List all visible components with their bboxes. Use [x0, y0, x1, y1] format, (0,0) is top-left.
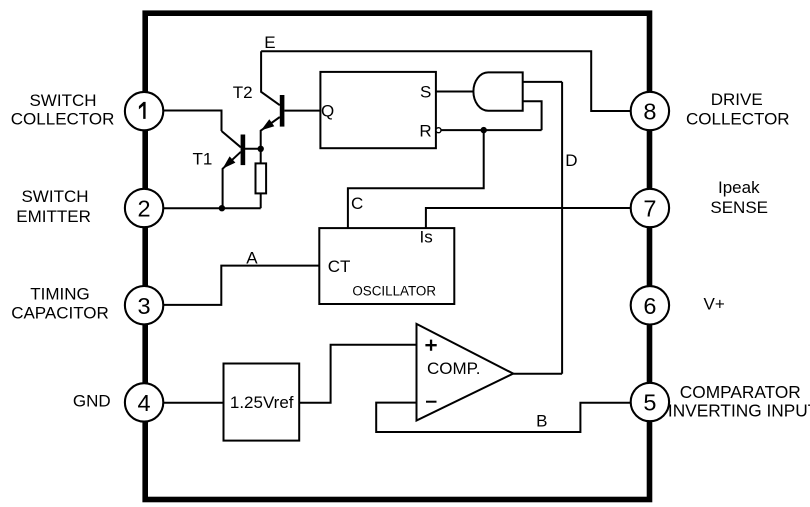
svg-text:GND: GND [73, 392, 111, 411]
comparator U2 [417, 324, 514, 421]
voltage reference block 1.25Vref [224, 364, 300, 441]
pin 3 name label TIMING CAPACITOR [11, 284, 109, 322]
pin 2 [125, 189, 163, 227]
pin 1 name label SWITCH COLLECTOR [11, 91, 115, 129]
svg-text:COMPARATOR: COMPARATOR [680, 382, 801, 402]
svg-text:EMITTER: EMITTER [16, 207, 91, 226]
wire net C [348, 130, 484, 228]
svg-text:INVERTING INPUT: INVERTING INPUT [668, 400, 810, 420]
pin 8 name label DRIVE COLLECTOR [686, 90, 790, 128]
svg-text:Q: Q [321, 102, 334, 121]
svg-text:2: 2 [138, 196, 151, 222]
wire net E [261, 51, 631, 111]
pin 5 name label COMPARATOR INVERTING INPUT [668, 382, 810, 420]
wire Q output to T2 base [284, 110, 320, 112]
svg-text:5: 5 [643, 390, 656, 416]
pin 7 [631, 189, 669, 227]
svg-text:Ipeak: Ipeak [718, 178, 760, 197]
svg-text:T1: T1 [193, 149, 213, 168]
svg-text:SWITCH: SWITCH [29, 91, 96, 110]
svg-text:B: B [536, 412, 547, 431]
transistor T1 [222, 131, 261, 208]
pin label + [425, 340, 436, 351]
svg-text:SWITCH: SWITCH [21, 187, 88, 206]
junction T1 base / T2 emitter / resistor [258, 146, 264, 152]
junction R net / C net [481, 127, 487, 133]
pin 4 [125, 383, 163, 421]
svg-text:SENSE: SENSE [710, 198, 768, 217]
wire net D [561, 82, 563, 374]
wire Is to pin 7 [426, 208, 631, 228]
pin 5 [631, 383, 669, 421]
wire AND input 1 to net D [523, 81, 562, 83]
svg-text:COMP.: COMP. [427, 359, 481, 378]
IC package outline [145, 13, 649, 499]
pin 8 [631, 92, 669, 130]
svg-text:V+: V+ [704, 295, 725, 314]
svg-text:COLLECTOR: COLLECTOR [11, 110, 115, 129]
AND gate [473, 72, 522, 110]
wire comparator output to net D [513, 373, 562, 375]
svg-text:Is: Is [420, 228, 433, 247]
svg-text:E: E [264, 33, 275, 52]
wire pin2 emitter rail [163, 207, 260, 209]
svg-text:S: S [420, 83, 431, 102]
oscillator block [319, 228, 454, 304]
wire net A pin3 to CT [163, 266, 319, 305]
svg-text:CT: CT [328, 257, 351, 276]
SR latch U1 [320, 72, 436, 148]
svg-text:TIMING: TIMING [30, 284, 90, 303]
pin 7 name label Ipeak SENSE [710, 178, 768, 217]
svg-text:CAPACITOR: CAPACITOR [11, 304, 109, 323]
transistor T2 [261, 51, 285, 149]
wire S input from AND gate [436, 91, 474, 93]
svg-text:T2: T2 [233, 83, 253, 102]
pin 6 [631, 286, 669, 324]
pin 2 name label SWITCH EMITTER [16, 187, 91, 226]
svg-text:7: 7 [643, 196, 656, 222]
wire R net [441, 129, 542, 131]
svg-text:8: 8 [643, 99, 656, 125]
wire pin4 to Vref [163, 402, 223, 404]
svg-text:COLLECTOR: COLLECTOR [686, 109, 790, 128]
svg-text:R: R [419, 122, 431, 141]
svg-text:3: 3 [138, 293, 151, 319]
svg-text:C: C [351, 194, 363, 213]
wire AND input 2 to R net [523, 101, 542, 130]
pin label minus [426, 401, 437, 403]
pin 3 [125, 286, 163, 324]
wire net B comparator inverting input to pin 5 [376, 403, 631, 432]
resistor [256, 149, 267, 208]
svg-text:DRIVE: DRIVE [711, 90, 763, 109]
svg-text:6: 6 [643, 293, 656, 319]
wire pin1 to T1 collector [163, 111, 221, 132]
inverter bubble on R input [436, 128, 441, 133]
svg-text:D: D [565, 151, 577, 170]
svg-text:1.25Vref: 1.25Vref [230, 393, 294, 412]
svg-text:A: A [246, 248, 258, 267]
pin 1 [125, 92, 163, 130]
wire Vref to comparator + [299, 345, 416, 403]
svg-text:OSCILLATOR: OSCILLATOR [352, 283, 436, 298]
junction T1 emitter on pin2 rail [219, 205, 225, 211]
svg-text:4: 4 [138, 390, 151, 416]
